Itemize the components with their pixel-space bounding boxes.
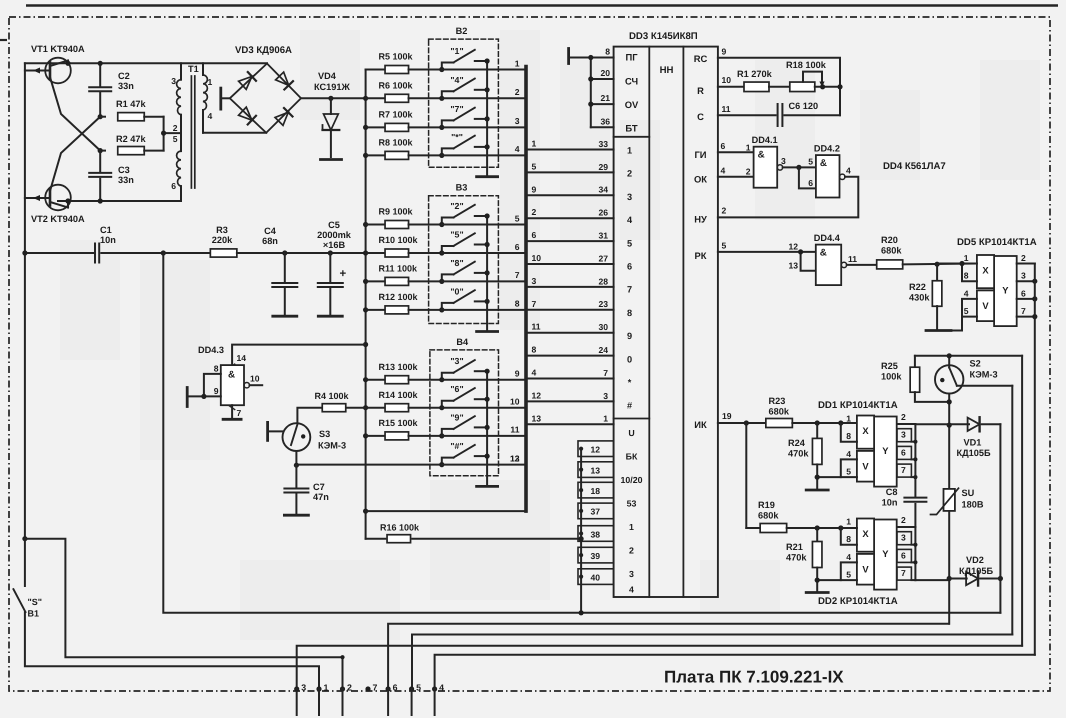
gate DD4.3 pin 7 ground (231, 405, 233, 417)
svg-text:26: 26 (598, 208, 608, 218)
svg-text:1: 1 (603, 414, 608, 424)
resistor R11 100k (366, 280, 385, 282)
svg-text:C: C (697, 111, 704, 122)
svg-text:13: 13 (788, 261, 798, 271)
svg-text:R3: R3 (216, 225, 228, 235)
switch "4" (442, 91, 454, 98)
svg-text:7: 7 (603, 368, 608, 378)
switch "0" (442, 303, 454, 310)
svg-text:2: 2 (515, 87, 520, 97)
svg-text:VT2 KT940A: VT2 KT940A (31, 214, 85, 224)
wire row "8" to cable (442, 280, 525, 282)
svg-text:29: 29 (598, 162, 608, 172)
gate DD4.2 (816, 155, 840, 197)
svg-text:&: & (820, 248, 827, 259)
svg-text:20: 20 (600, 68, 610, 78)
wire S2 top down right (1021, 356, 1023, 646)
resistor R9 100k (366, 224, 385, 226)
svg-text:DD4.3: DD4.3 (198, 345, 224, 355)
ground of B4 (477, 485, 498, 488)
svg-text:C2: C2 (118, 71, 130, 81)
DD5 right pins (1017, 263, 1035, 265)
svg-text:7: 7 (237, 408, 242, 418)
svg-text:C3: C3 (118, 165, 130, 175)
svg-text:VT1 KT940A: VT1 KT940A (31, 44, 85, 54)
switch group B3 dashed box (429, 196, 499, 324)
svg-text:9: 9 (532, 184, 537, 194)
wire row "6" to cable (442, 407, 525, 409)
capacitor C8 10n (904, 497, 926, 499)
svg-text:10n: 10n (882, 498, 898, 508)
svg-text:13: 13 (532, 413, 542, 423)
svg-text:"3": "3" (450, 356, 463, 366)
svg-text:40: 40 (590, 572, 600, 582)
wire cable line 10 to DD3 pin 27 (528, 263, 614, 265)
svg-text:X: X (862, 528, 869, 539)
wire row "*" to cable (442, 154, 525, 156)
svg-text:X: X (862, 425, 869, 436)
svg-text:3: 3 (515, 116, 520, 126)
svg-text:7: 7 (901, 465, 906, 475)
svg-text:БТ: БТ (625, 122, 638, 133)
wire bus (163, 252, 210, 254)
svg-text:2: 2 (532, 207, 537, 217)
terminal bar at bridge input (219, 88, 222, 109)
resistor R23 680k (766, 419, 793, 428)
wire S2 contact down right (1011, 386, 1013, 635)
ground under C4 (273, 315, 297, 318)
svg-text:Y: Y (882, 548, 889, 559)
ground of B3 (477, 330, 498, 333)
svg-text:КЭМ-3: КЭМ-3 (318, 441, 346, 451)
svg-text:R7 100k: R7 100k (379, 110, 414, 120)
svg-text:R14 100k: R14 100k (379, 390, 419, 400)
DD3 pin 10 R (718, 86, 744, 88)
bridge diode top-right (275, 72, 293, 90)
capacitor C3 33n (99, 151, 101, 171)
capacitor C5 2000mk (328, 250, 333, 255)
resistor R15 100k (366, 435, 385, 437)
svg-text:5: 5 (846, 467, 851, 477)
svg-text:R16 100k: R16 100k (380, 523, 420, 533)
svg-text:U: U (628, 428, 634, 438)
svg-text:10: 10 (510, 397, 520, 407)
svg-text:B3: B3 (456, 183, 468, 193)
svg-text:"S": "S" (28, 597, 43, 607)
svg-text:8: 8 (605, 47, 610, 57)
svg-text:8: 8 (846, 534, 851, 544)
DD1 left pin ties (841, 424, 857, 442)
wire loop S2 top to pin3 (297, 646, 1022, 689)
svg-text:СЧ: СЧ (625, 75, 638, 86)
resistor R19 680k (746, 527, 760, 529)
switch group B4 dashed box (430, 350, 499, 476)
svg-text:7: 7 (1021, 306, 1026, 316)
svg-text:9: 9 (722, 47, 727, 57)
wire cable line 13 to DD3 pin 1 (528, 423, 614, 425)
DD3 lower left pin boxes (578, 441, 614, 457)
svg-text:10: 10 (722, 75, 732, 85)
wire top rail (25, 62, 267, 64)
svg-text:&: & (820, 158, 827, 169)
svg-text:"9": "9" (450, 412, 463, 422)
svg-text:ГИ: ГИ (694, 149, 706, 160)
switch "6" (442, 401, 454, 408)
svg-text:R: R (697, 85, 704, 96)
svg-text:5: 5 (722, 241, 727, 251)
svg-text:"6": "6" (450, 384, 463, 394)
svg-text:C8: C8 (886, 487, 898, 497)
svg-text:13: 13 (510, 453, 520, 463)
switch common line B4 (486, 371, 488, 486)
svg-text:C7: C7 (313, 482, 325, 492)
svg-text:ОК: ОК (694, 173, 707, 184)
wire DD4.3 pin14 to bus (232, 345, 366, 366)
svg-text:T1: T1 (188, 64, 199, 74)
svg-text:C6 120: C6 120 (789, 101, 819, 111)
svg-text:33: 33 (598, 139, 608, 149)
wire loop SU to pin6 (388, 624, 949, 689)
svg-text:R20: R20 (881, 235, 898, 245)
svg-text:4: 4 (515, 144, 520, 154)
svg-text:28: 28 (598, 276, 608, 286)
svg-text:3: 3 (1021, 271, 1026, 281)
transistor VT2 KT940A (45, 185, 71, 211)
svg-text:R21: R21 (786, 542, 803, 552)
svg-text:2: 2 (627, 169, 632, 179)
svg-text:6: 6 (1021, 288, 1026, 298)
svg-text:220k: 220k (212, 235, 233, 245)
wire row12 from S3 (296, 464, 441, 466)
svg-text:180В: 180В (962, 500, 984, 510)
gate DD4.3 output 10 (244, 383, 249, 388)
svg-text:R8 100k: R8 100k (379, 138, 414, 148)
switch "8" (442, 274, 454, 281)
svg-text:R12 100k: R12 100k (379, 292, 419, 302)
capacitor C7 47n (295, 465, 297, 486)
bridge diode bottom-right (275, 108, 293, 126)
svg-text:10: 10 (250, 374, 260, 384)
svg-text:4: 4 (629, 585, 634, 595)
svg-text:11: 11 (722, 104, 731, 114)
ground under VD4 (321, 158, 342, 161)
svg-text:1: 1 (324, 683, 329, 693)
svg-text:R4 100k: R4 100k (315, 391, 350, 401)
resistor R25 100k (914, 356, 916, 368)
svg-text:3: 3 (532, 276, 537, 286)
svg-text:3: 3 (781, 156, 786, 166)
svg-text:9: 9 (515, 369, 520, 379)
svg-text:4: 4 (846, 552, 851, 562)
wire S3 bottom (295, 451, 297, 465)
svg-text:30: 30 (598, 322, 608, 332)
svg-text:14: 14 (237, 353, 247, 363)
svg-text:6: 6 (721, 141, 726, 151)
resistor R3 220k (210, 249, 237, 257)
ground under C7 (284, 514, 308, 517)
svg-text:DD2 КР1014КТ1А: DD2 КР1014КТ1А (818, 596, 898, 607)
svg-text:33n: 33n (118, 81, 134, 91)
svg-text:R10 100k: R10 100k (379, 235, 419, 245)
svg-text:B2: B2 (456, 26, 468, 36)
svg-text:БК: БК (626, 452, 638, 462)
svg-text:X: X (982, 264, 989, 275)
svg-text:8: 8 (627, 308, 632, 318)
wire bridge output (301, 97, 366, 99)
svg-text:DD4.2: DD4.2 (814, 144, 840, 154)
svg-text:R5 100k: R5 100k (379, 52, 414, 62)
svg-text:6: 6 (515, 242, 520, 252)
capacitor C6 120 (777, 104, 779, 126)
svg-text:11: 11 (848, 254, 857, 264)
svg-text:"2": "2" (450, 201, 463, 211)
svg-text:53: 53 (627, 499, 637, 509)
svg-text:S2: S2 (970, 359, 981, 369)
ground under R22 (926, 329, 951, 332)
svg-text:RC: RC (694, 53, 708, 64)
wire DD2 outputs common (914, 527, 916, 580)
svg-text:39: 39 (590, 551, 600, 561)
svg-text:0: 0 (627, 354, 632, 364)
DD3 power pins PG SCh OV BT (567, 49, 570, 64)
svg-text:КД105Б: КД105Б (959, 566, 993, 576)
gate DD4.3 input 8 (204, 374, 221, 397)
svg-text:DD4 К561ЛА7: DD4 К561ЛА7 (883, 161, 946, 172)
svg-text:VD4: VD4 (318, 71, 337, 81)
svg-text:R22: R22 (909, 282, 926, 292)
resistor R16 100k (366, 538, 386, 540)
svg-text:2000mk: 2000mk (317, 230, 352, 240)
svg-text:34: 34 (598, 185, 608, 195)
svg-text:4: 4 (721, 166, 726, 176)
svg-text:5: 5 (627, 238, 632, 248)
DD3 pin 11 C (718, 114, 776, 116)
wire cable line 2 to DD3 pin 26 (528, 217, 614, 219)
svg-text:&: & (758, 150, 765, 161)
svg-text:V: V (982, 300, 989, 311)
svg-text:1: 1 (627, 146, 632, 156)
svg-text:2: 2 (1021, 253, 1026, 263)
svg-text:3: 3 (603, 391, 608, 401)
svg-text:"5": "5" (450, 230, 463, 240)
wire DD3 common pin line (580, 448, 582, 613)
svg-text:НН: НН (660, 65, 674, 76)
svg-text:4: 4 (439, 683, 444, 693)
wire cable line 12 to DD3 pin 3 (528, 400, 614, 402)
svg-text:13: 13 (590, 465, 600, 475)
svg-text:ПГ: ПГ (625, 51, 638, 62)
svg-text:DD1 КР1014КТ1А: DD1 КР1014КТ1А (818, 400, 898, 411)
svg-text:23: 23 (598, 299, 608, 309)
svg-text:3: 3 (901, 430, 906, 440)
svg-text:680k: 680k (758, 511, 779, 521)
svg-text:VD1: VD1 (964, 438, 982, 448)
wire feed bus of keyboard resistors (365, 70, 367, 539)
svg-text:8: 8 (846, 431, 851, 441)
ground of B2 (477, 175, 498, 178)
reed relay S3 KEM-3 (283, 423, 311, 451)
resistor R20 680k (847, 264, 877, 266)
wire cable line 7 to DD3 pin 23 (528, 309, 614, 311)
svg-text:31: 31 (598, 231, 608, 241)
terminal bar at S3 (266, 422, 269, 440)
svg-text:12: 12 (788, 242, 798, 252)
wire cable line 9 to DD3 pin 34 (528, 194, 614, 196)
svg-text:4: 4 (846, 449, 851, 459)
svg-text:1: 1 (846, 517, 851, 527)
wire S2 contact out (957, 385, 1012, 387)
wire DD5 outputs down (1034, 264, 1036, 655)
resistor R10 100k (366, 252, 385, 254)
svg-text:9: 9 (627, 331, 632, 341)
wire cable line 11 to DD3 pin 30 (528, 332, 614, 334)
node C2-R1 (98, 114, 103, 119)
svg-text:"0": "0" (450, 286, 463, 296)
switch "7" (442, 120, 454, 127)
svg-text:19: 19 (722, 411, 732, 421)
svg-text:B4: B4 (456, 337, 469, 347)
wire row "4" to cable (442, 97, 525, 99)
wire row "#" to cable (442, 464, 525, 466)
svg-text:КЭМ-3: КЭМ-3 (970, 370, 998, 380)
resistor R14 100k (366, 407, 385, 409)
svg-text:100k: 100k (881, 372, 902, 382)
svg-text:1: 1 (746, 143, 751, 153)
wire bottom rail (58, 200, 181, 202)
switch B1 (24, 539, 26, 586)
resistor R12 100k (366, 309, 385, 311)
svg-text:10/20: 10/20 (620, 475, 642, 485)
svg-text:4: 4 (846, 166, 851, 176)
svg-text:R18 100k: R18 100k (786, 60, 827, 70)
svg-text:1: 1 (964, 253, 969, 263)
cable bundle (524, 67, 528, 512)
svg-text:8: 8 (515, 299, 520, 309)
resistor R6 100k (366, 97, 385, 99)
svg-text:5: 5 (515, 213, 520, 223)
switch group B2 dashed box (429, 39, 499, 167)
wire loop S2 contact to pin5 (412, 635, 1012, 690)
diode VD1 KD105B (915, 423, 969, 425)
wire left rail (24, 63, 26, 538)
svg-text:7: 7 (532, 299, 537, 309)
svg-text:DD4.4: DD4.4 (814, 233, 841, 243)
node bus to bottom loop (161, 250, 166, 255)
capacitor C2 33n (99, 63, 101, 85)
varistor SU 180V (944, 489, 955, 511)
switch "5" (442, 246, 454, 253)
diode VD2 KD105B (966, 572, 978, 585)
svg-text:"#": "#" (450, 441, 463, 451)
switch common line B3 (486, 216, 488, 332)
capacitor C1 10n (25, 252, 93, 254)
svg-text:6: 6 (901, 550, 906, 560)
wire row "0" to cable (442, 309, 525, 311)
svg-text:3: 3 (629, 569, 634, 579)
wire loop DD5 to pin4 (435, 655, 1035, 689)
svg-text:B1: B1 (28, 609, 40, 619)
svg-text:3: 3 (901, 533, 906, 543)
ground under C5 (318, 315, 342, 318)
wire cable line 8 to DD3 pin 24 (528, 355, 614, 357)
svg-text:6: 6 (532, 230, 537, 240)
switch "*" (442, 148, 454, 155)
svg-text:47n: 47n (313, 492, 329, 502)
wire loop VD node to bus (163, 253, 1000, 613)
svg-text:Y: Y (1002, 285, 1009, 296)
svg-text:18: 18 (590, 486, 600, 496)
svg-text:8: 8 (964, 271, 969, 281)
svg-text:Плата ПК 7.109.221-IX: Плата ПК 7.109.221-IX (664, 668, 844, 687)
svg-text:7: 7 (515, 270, 520, 280)
svg-text:3: 3 (171, 76, 176, 86)
svg-text:1: 1 (515, 58, 520, 68)
resistor R8 100k (366, 154, 385, 156)
wire T1 secondary bottom to bridge (203, 132, 266, 134)
svg-text:R6 100k: R6 100k (379, 81, 414, 91)
switch "1" (442, 63, 454, 70)
svg-text:"4": "4" (450, 75, 463, 85)
gate DD4.1 (718, 151, 754, 153)
svg-text:C1: C1 (100, 225, 112, 235)
wire VT1 base cross-coupling (50, 77, 100, 151)
svg-text:2: 2 (901, 515, 906, 525)
svg-text:R13 100k: R13 100k (379, 362, 419, 372)
page top edge (26, 4, 1058, 7)
svg-text:DD5 КР1014КТ1А: DD5 КР1014КТ1А (957, 237, 1037, 248)
wire S2 bottom (948, 394, 950, 426)
svg-text:R1 270k: R1 270k (737, 69, 773, 79)
svg-text:2: 2 (722, 206, 727, 216)
svg-text:4: 4 (208, 111, 213, 121)
svg-text:R19: R19 (758, 500, 775, 510)
svg-text:DD4.1: DD4.1 (752, 135, 778, 145)
svg-text:R9 100k: R9 100k (379, 207, 414, 217)
resistor R1 270k (744, 82, 769, 92)
DD3 pin 9 RC (718, 58, 840, 116)
gate DD4.4 (718, 251, 816, 253)
svg-text:470k: 470k (786, 553, 807, 563)
svg-text:4: 4 (964, 288, 969, 298)
svg-text:КД105Б: КД105Б (957, 448, 991, 458)
svg-text:C4: C4 (264, 226, 277, 236)
svg-text:3: 3 (627, 192, 632, 202)
svg-text:7: 7 (373, 683, 378, 693)
svg-text:R1 47k: R1 47k (116, 99, 147, 109)
svg-text:11: 11 (532, 322, 541, 332)
wire cable line 4 to DD3 pin 7 (528, 378, 614, 380)
resistor R2 47k (100, 150, 105, 152)
switch "3" (442, 373, 454, 380)
svg-text:OV: OV (625, 99, 639, 110)
svg-text:4: 4 (627, 215, 633, 225)
svg-text:R15 100k: R15 100k (379, 418, 419, 428)
svg-text:VD2: VD2 (966, 555, 984, 565)
resistor R5 100k (366, 69, 385, 71)
svg-text:V: V (862, 563, 869, 574)
resistor R13 100k (366, 379, 385, 381)
svg-text:680k: 680k (881, 246, 902, 256)
svg-text:"8": "8" (450, 258, 463, 268)
wire IK branch down to R19 (745, 423, 747, 528)
svg-text:+: + (340, 268, 347, 280)
bridge diode top-left (238, 72, 256, 90)
svg-text:6: 6 (393, 683, 398, 693)
svg-text:#: # (627, 401, 632, 411)
node VT1 collector junction (65, 61, 70, 66)
wire DD4.1 out to DD4.2 in (783, 166, 816, 168)
svg-text:2: 2 (746, 167, 751, 177)
